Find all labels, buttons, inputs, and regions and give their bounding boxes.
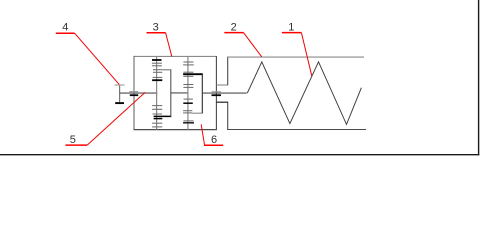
svg-text:6: 6 <box>211 134 217 146</box>
coupling bottom flange bar (black) <box>115 102 124 104</box>
shaft II gear bar y62 <box>183 61 193 63</box>
black link bar to bracket (long) y116.4 <box>154 115 172 117</box>
shaft I gear bar y105.6 <box>152 105 162 107</box>
shift bracket top link to right <box>162 69 171 71</box>
label 5 underline <box>66 144 88 146</box>
shaft I gear bar y69.6 <box>153 69 162 71</box>
shaft I gear bar y109.3 <box>152 108 162 110</box>
label 6 leader <box>201 124 204 145</box>
label 5 leader <box>87 92 145 145</box>
gearbox housing right wall <box>215 56 217 130</box>
shaft II gear bar y112.9 with link to right bracket <box>183 112 192 114</box>
label 6 underline <box>204 144 223 146</box>
left shift bracket vertical x170 <box>170 70 172 117</box>
shaft II gear bar y120.4 <box>183 120 193 122</box>
shaft II gear bar y99.1 <box>184 98 193 100</box>
shaft I gear bar y77.4 <box>153 76 163 78</box>
label 4 leader <box>75 33 120 84</box>
shaft I gear bar y65.8 <box>152 65 162 67</box>
label 3 leader <box>166 33 172 57</box>
shaft II gear bar y110.7 <box>183 110 192 112</box>
shaft II gear bar (black, extends to right bracket) y74.2 <box>183 73 203 75</box>
shaft I gear bar (black) y118.6 <box>154 118 163 120</box>
shaft II gear bar (black) y102.8 <box>183 102 193 104</box>
spring zigzag (items 1,2) <box>247 62 361 125</box>
output shaft axis y93.1 <box>202 92 247 94</box>
label 1 leader <box>301 33 311 76</box>
rail box upper-left vertical <box>227 57 229 85</box>
label 1 underline <box>282 32 302 34</box>
label 3 underline <box>147 32 166 34</box>
drawing frame right border <box>478 0 480 155</box>
shaft II gear bar (black) y123.4 <box>183 122 194 124</box>
drawing frame bottom border <box>0 154 479 156</box>
gearbox housing top edge <box>134 55 217 57</box>
shaft II gear bar y76.3 <box>183 75 193 77</box>
gear shaft I (vertical) <box>156 56 158 129</box>
coupling top flange bar (gray) <box>115 84 125 86</box>
svg-text:5: 5 <box>70 134 76 146</box>
link bar y113.2 to bracket x202 <box>192 112 203 114</box>
shaft II gear bar y84.5 <box>183 84 193 86</box>
shaft I gear bar y114 <box>153 113 163 115</box>
left wall bearing upper bar (gray) <box>129 91 138 93</box>
gearbox housing left wall <box>133 56 135 130</box>
coupling/handle hub vertical (item 4) <box>119 85 121 103</box>
gearbox housing bottom edge <box>134 129 217 131</box>
shaft I gear bar y126.6 <box>152 126 162 128</box>
svg-text:3: 3 <box>153 22 159 34</box>
top guide rail <box>227 56 364 58</box>
frame lower connector wall to rail box <box>216 101 228 103</box>
shaft II gear bar y72.2 <box>183 71 193 73</box>
shaft I gear bar (black) y80.2 <box>152 79 162 81</box>
shaft II gear bar y87.4 <box>183 86 193 88</box>
svg-text:4: 4 <box>62 22 68 34</box>
label 2 leader <box>244 33 262 57</box>
middle link to gear shaft II y92.8 <box>171 92 189 94</box>
label 4 underline <box>56 32 75 34</box>
bottom guide rail <box>227 129 366 131</box>
frame upper connector wall to rail box <box>216 84 228 86</box>
rail box lower-left vertical <box>227 102 229 129</box>
gear shaft II (vertical) <box>187 56 189 129</box>
shaft I gear bar y72.3 <box>153 71 162 73</box>
right wall bearing lower bar (black) <box>212 94 222 96</box>
shaft II gear bar y64.9 <box>183 64 194 66</box>
right wall bearing upper bar (gray) <box>212 91 222 93</box>
shaft I gear bar (black) y60 <box>152 59 162 61</box>
shaft I gear bar y122.9 <box>152 122 162 124</box>
label 2 underline <box>224 32 243 34</box>
right bracket vertical x201.7 <box>201 74 203 113</box>
input shaft axis (item 5) <box>120 92 158 94</box>
left wall bearing lower bar (black) <box>130 94 138 96</box>
shaft I gear bar y63.2 <box>152 62 162 64</box>
